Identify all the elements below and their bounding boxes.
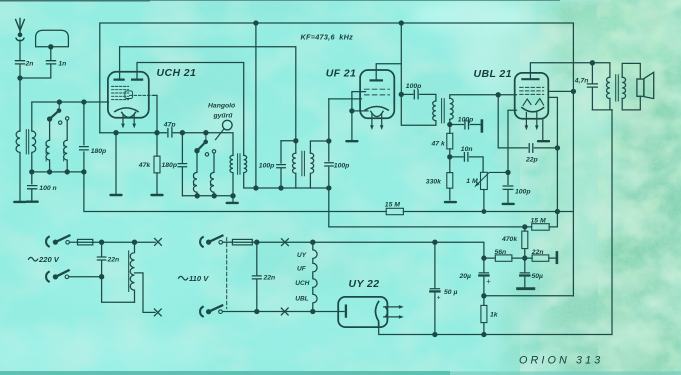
cathode UY [376,302,379,328]
wire 47k to ground [156,173,158,194]
wire 180p column and AVC bus left [84,102,386,212]
capacitor 10n [464,153,468,161]
tube UBL 21 envelope [515,73,549,119]
wire UBL cathode to ground [542,119,544,140]
capacitor 180p antenna [80,147,89,150]
capacitor 50u screen [520,258,529,287]
svg-text:UCH: UCH [295,280,309,287]
wire B+ screen feed y296 [484,295,574,297]
arrows UY cathode [384,307,400,317]
node grid line 180p tap [82,100,86,104]
node IF1 cap bottom [279,186,283,190]
X strap 110V top [282,239,289,246]
anode bar UBL [522,78,538,80]
svg-text:15 M: 15 M [531,218,546,225]
svg-text:ORION 313: ORION 313 [519,355,603,367]
resistor 56 [495,255,512,261]
capacitor 22n 220V [97,242,134,302]
X strap 220V top [155,239,162,246]
svg-text:UF: UF [297,266,307,273]
ground UBL cathode [537,140,550,142]
wire AVC bus right [403,211,573,213]
inductor osc coil B [210,153,214,196]
ground 100p volume [502,203,515,205]
wire antenna lead [19,40,21,131]
svg-text:22n: 22n [263,275,276,282]
grid UBL dashes [520,87,544,94]
wire IF2 secondary bottom [449,119,451,124]
transformer IF2 core [442,99,445,123]
wire 10n link [450,157,483,172]
antenna [16,19,25,41]
resistor 1k [483,296,485,306]
resistor 15M AVC [525,212,558,227]
wire top B+ bus with end drops [100,23,574,296]
svg-text:20µ: 20µ [459,273,472,280]
potentiometer 1M [481,172,488,189]
svg-text:100p: 100p [259,163,275,170]
svg-text:47 k: 47 k [431,141,446,148]
wire switch to fuse 110V [223,241,233,243]
svg-text:22p: 22p [525,156,538,163]
node UF grid tank [327,139,331,143]
wire UCH hexode anode feed to IF1 [120,47,296,153]
inductor osc coil A [193,151,197,196]
tilde 220V [29,257,38,261]
grid UCH dashes [112,86,129,99]
node loop antenna tap [49,45,53,49]
transformer mains autotransformer [130,242,134,302]
X strap 220V bottom [154,309,161,316]
wire UCH cathode to ground [115,133,117,194]
cathode UBL [522,108,544,112]
node 10n [448,155,452,159]
transformer IF2 secondary winding [450,98,453,119]
node detector [448,122,452,126]
ground UCH cathode [109,194,122,196]
capacitor 100p IF1 tank [277,141,286,188]
svg-text:UY: UY [297,252,307,259]
transformer oscillator core [238,154,240,174]
node IF1 node 256 [254,186,258,190]
anode bar UY [345,306,347,317]
arrows UCH cathode [123,115,134,125]
anode bar UF [371,79,382,81]
capacitor 180p oscillator [178,133,186,196]
wire B+ bottom bus [379,110,612,335]
svg-text:100p: 100p [334,163,350,170]
svg-text:Hangoló: Hangoló [208,103,235,110]
svg-text:100p: 100p [515,189,531,196]
wire IF1 tank top link [281,140,296,142]
plug jaw 110V line A [200,237,203,247]
wire B+ column x401 down to IF2 primary bottom [401,23,436,125]
wire UCH triode grid to 47k [154,95,158,156]
svg-text:2n: 2n [25,60,34,67]
loop antenna [36,30,69,47]
wire IF2 secondary top to UBL grid [450,95,517,99]
tube UY 22 envelope [338,297,387,327]
node grid line switch tap [57,100,61,104]
svg-text:UCH 21: UCH 21 [157,67,197,79]
wire UBL diode stub to AVC [548,97,557,211]
inductor antenna coil primary [16,131,20,201]
wire transformer tap 110 [135,273,156,313]
node y132 180p tap [180,131,184,135]
tilde 110V [179,276,188,280]
svg-text:110 V: 110 V [189,274,209,283]
tube UF 21 envelope [360,70,394,118]
wire loop to 1n to antenna lead [20,47,51,78]
resistor 47k detector [449,125,451,134]
node IF1 right bottom [327,186,331,190]
triode grid dashed lead UCH [130,94,154,96]
plug jaw 110V line B [200,307,203,317]
svg-text:1n: 1n [58,60,66,67]
wire screen node 258 [484,257,556,259]
INK [13,19,654,337]
svg-text:100 n: 100 n [39,185,56,192]
node top bus junction 1 [254,21,258,25]
transformer output primary winding [607,77,610,98]
inductor band coil A [46,119,50,172]
svg-text:22n: 22n [531,249,544,256]
wire UF cathode to ground [352,92,368,140]
grid cage outline UCH [125,91,133,99]
capacitor 50u main filter [430,242,439,334]
tube UCH 21 envelope [108,72,149,118]
wire B+ drop to IF1 [255,23,257,188]
node UF anode cap [399,92,403,96]
capacitor 22p [529,144,533,152]
svg-text:50 µ: 50 µ [444,289,457,296]
svg-text:56n: 56n [495,249,507,256]
capacitor 100p UF grid [325,163,333,166]
transformer oscillator right winding [244,155,329,188]
wire UBL grid to 22p [498,95,557,148]
wire speaker loop [622,63,640,110]
wire UCH grid line [32,102,109,131]
wire detector to 100p terminal [450,124,481,126]
node y132 osc switch tap [204,131,208,135]
svg-text:KF=473,6 kHz: KF=473,6 kHz [301,33,354,42]
core antenna coil [26,130,28,154]
transformer IF1 core [302,151,305,176]
capacitor 2n [15,61,24,64]
ground antenna [13,201,26,203]
resistor 22 [532,255,549,261]
wire cap to IF2 primary top [420,94,436,101]
terminal bar 22 [556,252,559,262]
svg-text:1k: 1k [490,311,499,318]
node antenna junction [18,76,22,80]
resistor 47k UCH [154,156,160,173]
switch mains 220V B [53,275,57,279]
switch band selector 2 [205,133,207,142]
ground 330k [444,201,457,203]
node y132 cathode tap [114,131,118,135]
plug jaw 220V line A [46,237,49,247]
capacitor 4.7n [587,63,597,110]
arrows UBL cathode [526,113,536,127]
resistor 15M series [386,208,403,214]
wire UBL screen stub [548,90,573,92]
plug jaw 220V line B [46,272,49,282]
capacitor 47p [168,129,172,137]
svg-text:UBL: UBL [295,296,308,303]
svg-text:470k: 470k [501,236,518,243]
capacitor 100p UF anode [414,90,418,99]
node 4.7n tap [590,61,594,65]
svg-text:100p: 100p [458,116,474,123]
node 22n switch B tap [100,275,104,279]
transformer IF1 primary winding [292,153,295,188]
transformer IF2 primary winding [433,101,436,121]
heater chain UY UF UCH UBL [313,242,317,311]
svg-text:22n: 22n [107,257,120,264]
wire output primary bottom [592,99,612,110]
svg-text:UBL 21: UBL 21 [474,68,512,80]
ground 100n [26,201,39,203]
svg-text:UY 22: UY 22 [349,278,380,290]
node top bus junction 2 [399,21,403,25]
grid UF dashes [365,89,390,95]
transformer oscillator left winding [230,155,233,195]
switch band selector 1 [58,102,60,111]
wiper arrow 1M [476,172,508,185]
resistor 470k [523,225,527,229]
svg-text:gyűrű: gyűrű [213,113,234,120]
node UBL grid [496,93,500,97]
capacitor 20u [479,258,488,296]
wire UF grid stub [329,98,362,100]
anode bars UCH [115,78,143,80]
beam plates UBL [523,99,544,106]
svg-text:UF 21: UF 21 [326,68,357,80]
switch mains 110V A [207,240,211,244]
transformer output secondary winding [622,77,625,98]
capacitor 100p detector [465,120,469,129]
wire switch to fuse 220V [69,241,77,243]
fuse 110V [232,239,252,245]
svg-text:15 M: 15 M [385,201,400,208]
cathode UCH [115,108,138,112]
svg-text:47p: 47p [163,121,176,128]
wire UCH triode anode feed to oscillator [137,63,244,156]
wire fuse to transformer 220V [93,241,155,243]
svg-text:10n: 10n [461,146,473,153]
svg-text:330k: 330k [426,179,442,186]
svg-text:180p: 180p [91,148,107,155]
svg-text:47k: 47k [138,162,152,169]
wire heater rail y242 [252,242,484,258]
wire oscillator bottom node [182,195,233,197]
X strap 110V bottom [281,308,288,315]
svg-text:4,7n: 4,7n [574,78,589,85]
inductor band coil B [64,120,68,172]
arrows UF cathode [372,114,382,126]
capacitor 1n [46,61,55,64]
switch mains 220V A [53,240,57,244]
transformer output core [616,75,619,101]
ground 50u screen [518,287,534,290]
wire UBL diode2 stub to volume [508,110,517,172]
wire UBL anode line [530,63,610,79]
node y132 47k tap [155,131,159,135]
fuse 220V [78,239,93,245]
ground 47k [150,194,163,196]
tuning ring Hangolo gyuru [223,120,233,130]
resistor 330k [449,157,451,173]
ground oscillator [232,196,234,202]
svg-text:1 M: 1 M [466,178,478,185]
cathode UF [365,106,388,110]
wire IF1 secondary top to UF grid [310,141,328,153]
wire UF anode coupling [401,93,413,95]
wire UF grid column and AVC takeoff [329,99,525,227]
svg-text:220 V: 220 V [38,255,60,264]
capacitor 100n [28,172,37,200]
ganged switch dashed link [226,238,228,309]
capacitor 100p volume [503,172,513,202]
svg-text:50µ: 50µ [532,273,544,280]
capacitor 22n 110V [252,242,261,311]
inductor antenna coil secondary [32,131,36,172]
wire UCH screen line y132 [100,133,233,156]
transformer IF1 secondary winding [310,153,313,188]
wire 110V B to UY22 anode [223,311,344,313]
wire UF anode to B+ column [376,64,401,81]
switch mains 110V B [207,310,211,314]
terminal bar 100p [481,121,484,132]
wire switch B to 22n [69,276,102,278]
ground UF cathode [345,140,358,142]
speaker [637,79,644,96]
wire input node line [31,171,84,173]
svg-text:180p: 180p [162,162,178,169]
svg-text:100p: 100p [406,83,422,90]
